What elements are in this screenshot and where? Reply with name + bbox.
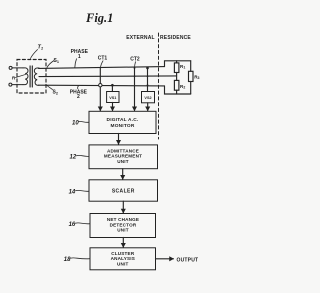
svg-text:UNIT: UNIT: [117, 228, 129, 233]
terminal circle top: [9, 66, 12, 69]
net change detector unit box U16: [90, 214, 156, 238]
wire terminal bottom to primary: [12, 84, 23, 86]
arrow monitor to admittance: [118, 134, 120, 145]
svg-text:MONITOR: MONITOR: [111, 123, 135, 129]
VS2 crossing dot middle wire: [147, 75, 149, 77]
wire top rail to R3: [190, 61, 192, 72]
svg-text:T1: T1: [38, 45, 44, 51]
label CT1 with leader: [98, 56, 108, 69]
wire R2 to bottom rail: [176, 90, 178, 94]
wire VS1 to monitor: [112, 103, 114, 111]
svg-text:12: 12: [70, 155, 77, 161]
arrow net change to cluster: [122, 238, 124, 248]
wire phase 1 (top): [39, 67, 165, 69]
wire VS1 to box: [111, 85, 113, 91]
svg-text:VS2: VS2: [144, 96, 151, 100]
svg-text:Fig.1: Fig.1: [85, 11, 113, 25]
wire neutral (middle): [39, 75, 177, 78]
transformer core: [29, 66, 31, 87]
ref label 16 with leader: [69, 222, 90, 228]
svg-text:S1: S1: [54, 58, 59, 64]
transformer T1 dashed enclosure: [17, 60, 46, 94]
output arrow: [156, 258, 174, 260]
ref label 18 with leader: [64, 257, 90, 263]
CT2 drop wire to monitor: [134, 68, 136, 111]
svg-text:R1: R1: [180, 64, 185, 70]
svg-text:OUTPUT: OUTPUT: [177, 257, 199, 263]
svg-text:RESIDENCE: RESIDENCE: [160, 35, 191, 41]
svg-text:2: 2: [77, 94, 80, 100]
label R with leader: [12, 74, 26, 80]
ref label 10 with leader: [72, 121, 89, 127]
svg-text:VS1: VS1: [109, 96, 116, 100]
wire phase 2 (bottom): [39, 84, 165, 87]
label S1 with leader: [47, 58, 59, 68]
residence wiring: phase1 riser: [165, 61, 191, 67]
CT2 junction dot top wire: [134, 67, 136, 69]
svg-text:CT1: CT1: [98, 56, 108, 62]
wire R3 to bottom rail: [190, 82, 192, 95]
svg-text:EXTERNAL: EXTERNAL: [126, 35, 155, 41]
secondary winding: [34, 68, 39, 85]
svg-text:14: 14: [69, 190, 76, 196]
boundary dashed line external/residence: [158, 33, 160, 139]
svg-text:16: 16: [69, 222, 76, 228]
wire VS2 to box: [147, 68, 149, 92]
label S2 with leader: [47, 86, 58, 96]
wire terminal top to primary: [12, 67, 23, 69]
svg-text:R2: R2: [180, 84, 185, 90]
wire R1 to R2: [176, 73, 178, 81]
digital a.c. monitor box U10: [89, 111, 156, 133]
arrow admittance to scaler: [122, 169, 124, 180]
resistor R2: [174, 80, 179, 90]
primary winding: [23, 68, 28, 85]
CT1 circle on phase 2 wire: [99, 84, 102, 87]
terminal circle bottom: [9, 83, 12, 86]
svg-text:18: 18: [64, 257, 71, 263]
cluster analysis unit box U18: [90, 248, 156, 270]
VS2 crossing dot bottom wire: [147, 84, 149, 86]
label CT2 with leader: [130, 57, 140, 69]
label T1 with leader: [31, 45, 44, 59]
label PHASE 1 with leader: [71, 49, 89, 68]
admittance measurement unit box U12: [89, 145, 158, 169]
box VS1: [107, 92, 119, 103]
VS2 junction dot on phase 1 wire: [146, 67, 149, 70]
ref label 12 with leader: [70, 155, 90, 161]
wire VS2 to monitor: [147, 103, 149, 111]
svg-text:CT2: CT2: [130, 57, 140, 63]
wire top rail to R1: [176, 61, 178, 63]
residence wiring: phase2 drop: [165, 86, 191, 94]
resistor R1: [174, 63, 179, 73]
scaler box U14: [89, 180, 158, 201]
CT1 drop wire to monitor: [99, 68, 101, 111]
resistor R3: [189, 71, 194, 81]
VS1 junction dot on phase 2 wire: [111, 84, 114, 87]
svg-text:DIGITAL A.C.: DIGITAL A.C.: [107, 117, 139, 123]
svg-text:R3: R3: [194, 74, 199, 80]
svg-text:UNIT: UNIT: [117, 159, 129, 164]
svg-text:R: R: [12, 76, 16, 81]
box VS2: [142, 92, 155, 103]
ref label 14 with leader: [69, 190, 89, 196]
label PHASE 2 with leader: [70, 86, 88, 101]
svg-text:SCALER: SCALER: [112, 188, 135, 194]
svg-text:UNIT: UNIT: [117, 261, 129, 266]
svg-text:1: 1: [78, 54, 81, 60]
CT2 junction dot middle wire: [134, 75, 136, 77]
arrow scaler to net change: [122, 201, 124, 213]
svg-text:10: 10: [72, 121, 79, 127]
svg-text:S2: S2: [53, 90, 58, 96]
